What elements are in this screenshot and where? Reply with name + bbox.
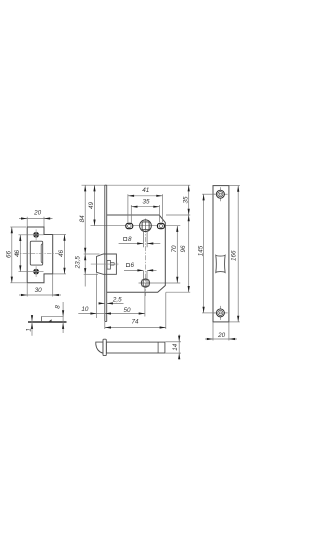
svg-text:96: 96 — [180, 245, 187, 253]
svg-text:50: 50 — [123, 307, 131, 314]
svg-text:46: 46 — [14, 250, 21, 258]
svg-text:46: 46 — [58, 250, 65, 258]
svg-text:8: 8 — [128, 236, 132, 243]
svg-text:20: 20 — [33, 210, 42, 217]
svg-text:74: 74 — [131, 319, 139, 326]
svg-text:70: 70 — [171, 245, 178, 253]
svg-text:6: 6 — [131, 262, 135, 269]
svg-text:35: 35 — [142, 198, 150, 205]
svg-text:1: 1 — [26, 328, 33, 332]
svg-text:14: 14 — [172, 343, 179, 351]
svg-text:35: 35 — [182, 196, 189, 204]
svg-text:30: 30 — [35, 287, 43, 294]
svg-text:10: 10 — [81, 306, 89, 313]
svg-text:8: 8 — [55, 305, 62, 309]
svg-text:2,5: 2,5 — [112, 297, 122, 304]
svg-text:49: 49 — [88, 202, 95, 210]
svg-text:66: 66 — [6, 251, 13, 259]
svg-text:23,5: 23,5 — [75, 256, 82, 270]
svg-text:166: 166 — [231, 250, 238, 261]
svg-text:20: 20 — [217, 332, 226, 339]
svg-text:41: 41 — [142, 187, 149, 194]
svg-text:84: 84 — [79, 215, 86, 223]
svg-text:145: 145 — [197, 245, 204, 256]
